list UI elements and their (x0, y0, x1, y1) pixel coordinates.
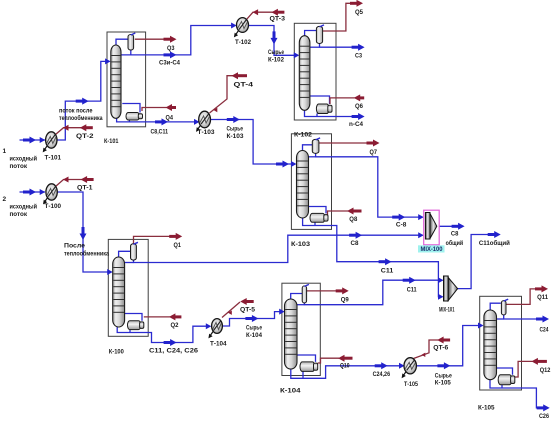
svg-text:Сырье: Сырье (435, 372, 452, 379)
svg-text:Q11: Q11 (537, 294, 548, 301)
svg-text:С24: С24 (540, 326, 549, 333)
svg-text:QT-5: QT-5 (240, 306, 255, 313)
svg-text:Т-104: Т-104 (210, 341, 227, 348)
svg-text:n-С4: n-С4 (349, 121, 363, 128)
svg-text:C-8: C-8 (396, 222, 407, 229)
svg-text:теплообменника: теплообменника (64, 249, 109, 257)
svg-text:Q10: Q10 (340, 362, 350, 369)
svg-text:С11общий: С11общий (479, 239, 510, 247)
svg-text:Сырье: Сырье (227, 126, 244, 133)
svg-text:поток: поток (10, 211, 28, 218)
svg-text:MIX-101: MIX-101 (439, 306, 455, 313)
svg-text:MIX-100: MIX-100 (421, 246, 443, 253)
svg-text:Q6: Q6 (355, 103, 363, 110)
svg-text:К-104: К-104 (280, 388, 301, 395)
svg-text:Q4: Q4 (166, 114, 174, 121)
svg-text:К-105: К-105 (478, 404, 495, 411)
svg-text:1: 1 (3, 148, 7, 155)
svg-text:Сырье: Сырье (246, 324, 262, 331)
svg-text:QT-4: QT-4 (234, 82, 254, 89)
svg-text:Q9: Q9 (341, 296, 349, 303)
svg-text:К-101: К-101 (104, 138, 119, 145)
svg-text:Q2: Q2 (171, 322, 179, 329)
svg-text:К-104: К-104 (246, 332, 262, 339)
svg-text:Т-100: Т-100 (45, 203, 62, 210)
svg-text:общий: общий (446, 239, 464, 247)
svg-text:QT-1: QT-1 (77, 185, 93, 192)
svg-text:QT-3: QT-3 (270, 15, 286, 22)
svg-text:Q1: Q1 (174, 242, 182, 249)
svg-text:C8: C8 (351, 240, 359, 247)
svg-text:С24,26: С24,26 (373, 371, 391, 378)
svg-text:C8: C8 (451, 231, 459, 238)
svg-text:исходный: исходный (10, 203, 38, 211)
svg-text:Q8: Q8 (349, 216, 357, 223)
svg-text:К-102: К-102 (268, 56, 284, 63)
svg-text:Q5: Q5 (355, 9, 363, 16)
svg-text:исходный: исходный (10, 155, 38, 163)
svg-text:2: 2 (3, 196, 7, 203)
svg-text:C11: C11 (407, 287, 417, 294)
svg-text:Q7: Q7 (370, 149, 378, 156)
svg-text:C3: C3 (355, 53, 362, 60)
svg-text:С3и-С4: С3и-С4 (159, 60, 180, 67)
svg-text:К-103: К-103 (227, 133, 244, 140)
svg-text:Сырье: Сырье (268, 49, 284, 56)
svg-text:C11: C11 (381, 267, 394, 274)
svg-text:С8,С11: С8,С11 (151, 128, 169, 135)
svg-text:К-105: К-105 (435, 380, 451, 387)
svg-text:Q12: Q12 (540, 367, 551, 374)
svg-text:Т-102: Т-102 (235, 39, 251, 46)
svg-text:QT-2: QT-2 (76, 133, 94, 140)
svg-text:теплообменника: теплообменника (59, 114, 103, 122)
svg-text:С26: С26 (539, 413, 549, 420)
svg-text:поток после: поток после (59, 108, 93, 115)
svg-text:К-100: К-100 (109, 349, 124, 356)
svg-text:Т-101: Т-101 (45, 155, 62, 162)
svg-text:Т-105: Т-105 (404, 381, 418, 388)
svg-text:Т-103: Т-103 (198, 129, 215, 136)
svg-text:QT-6: QT-6 (433, 344, 448, 351)
svg-text:К-102: К-102 (294, 131, 312, 138)
svg-text:К-103: К-103 (291, 241, 310, 248)
svg-text:С11, С24, С26: С11, С24, С26 (149, 348, 198, 355)
svg-text:После: После (64, 242, 85, 249)
svg-text:Q3: Q3 (167, 45, 175, 52)
svg-text:поток: поток (10, 163, 28, 170)
